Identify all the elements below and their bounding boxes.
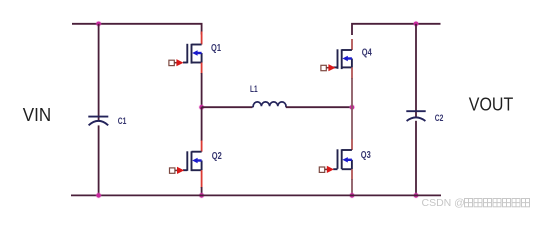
wire VOUT+ vertical rail down to C2 xyxy=(415,24,417,117)
watermark CSDN @xiaoyouyushengbujiatang xyxy=(422,197,530,209)
svg-text:Q4: Q4 xyxy=(362,46,372,57)
node B (right switch node) xyxy=(349,104,355,110)
node bottom VIN- junction xyxy=(96,192,102,198)
wire Q3 drain red pin stub xyxy=(351,139,353,150)
wire Q3 drain from node B down xyxy=(351,107,353,139)
svg-text:C2: C2 xyxy=(435,113,444,123)
wire Q2 source red pin stub xyxy=(201,170,203,188)
svg-text:L1: L1 xyxy=(250,84,258,94)
wire bottom rail xyxy=(71,194,441,196)
svg-text:Q1: Q1 xyxy=(211,42,221,53)
wire Q2 source to bottom rail xyxy=(201,187,203,195)
svg-text:Q2: Q2 xyxy=(212,150,222,161)
wire Q1 source down to switch node A xyxy=(201,73,203,107)
transistor Q3 (NMOS, bottom-right) xyxy=(333,149,352,169)
node A (left switch node) xyxy=(199,104,205,110)
wire Q2 drain red pin stub xyxy=(201,141,203,152)
node bottom-left (Q2 source / rail) xyxy=(199,192,205,198)
transistor Q4 (NMOS, top-right) xyxy=(333,49,352,69)
svg-text:VIN: VIN xyxy=(23,104,51,125)
gate drive arrow Q2 xyxy=(175,169,178,171)
svg-text:C1: C1 xyxy=(118,116,127,126)
gate drive arrow Q3 xyxy=(325,168,328,170)
wire top-left rail horizontal with corner down to Q1 drain xyxy=(72,24,202,35)
wire C1 bottom to VIN- rail xyxy=(98,125,100,195)
wire VIN+ vertical rail down to C1 xyxy=(98,24,100,121)
svg-text:CSDN @: CSDN @ xyxy=(422,197,465,209)
gate input square Q1 xyxy=(169,60,174,65)
svg-text:VOUT: VOUT xyxy=(469,94,514,115)
wire Q2 drain from node A down xyxy=(201,107,203,141)
wire Q1 drain red pin stub xyxy=(201,32,203,45)
node bottom Q3/rail junction xyxy=(349,192,355,198)
wire Q4 source down to node B xyxy=(351,78,353,107)
wire Q1 source red pin stub xyxy=(201,63,203,75)
capacitor C1 xyxy=(88,117,108,126)
wire node A to L1 left xyxy=(202,106,253,108)
wire top-right rail horizontal with corner down to Q4 drain xyxy=(352,24,441,35)
node bottom-right (C2 / rail) xyxy=(413,192,419,198)
gate drive arrow Q4 xyxy=(326,67,329,69)
gate input square Q3 xyxy=(319,167,324,172)
wire Q3 source to bottom rail xyxy=(351,179,353,195)
transistor Q1 (NMOS, top-left) xyxy=(183,44,202,64)
wire Q4 source red pin stub xyxy=(351,67,353,79)
wire Q4 drain red pin stub xyxy=(351,39,353,50)
gate input square Q4 xyxy=(321,65,326,70)
node top-right junction (VOUT+ rail) xyxy=(413,21,419,27)
wire Q3 source red pin stub xyxy=(351,169,353,180)
capacitor C2 xyxy=(406,111,425,121)
inductor L1 xyxy=(252,102,286,107)
wire L1 right to node B xyxy=(286,106,352,108)
transistor Q2 (NMOS, bottom-left) xyxy=(183,151,202,171)
node top-left junction (VIN+ rail) xyxy=(96,21,102,27)
gate input square Q2 xyxy=(170,168,175,173)
gate drive arrow Q1 xyxy=(174,62,177,64)
wire C2 bottom to VOUT- rail xyxy=(415,121,417,196)
svg-text:Q3: Q3 xyxy=(361,149,371,160)
